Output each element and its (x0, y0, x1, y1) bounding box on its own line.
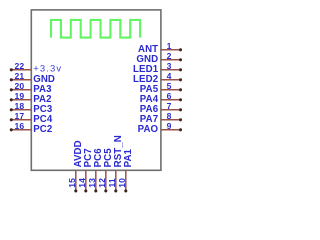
pin 13 (PC6) (87, 148, 104, 193)
pin 21 (GND) (10, 71, 55, 85)
pin 20 (PA3) (10, 81, 52, 95)
svg-text:2: 2 (167, 51, 172, 61)
pin 2 (GND) (136, 51, 182, 65)
pin 3 wire (161, 69, 181, 71)
svg-text:PA1: PA1 (123, 148, 134, 167)
pin 19 (PA2) (10, 91, 52, 105)
pin 19 end dot (10, 98, 13, 101)
svg-text:11: 11 (107, 178, 117, 187)
pin 15 (AVDD) (67, 140, 84, 192)
pin 6 (PA4) (140, 91, 182, 105)
svg-text:16: 16 (15, 121, 25, 131)
pin 7 end dot (179, 108, 182, 111)
pin 17 wire (11, 119, 31, 121)
pin 4 wire (161, 79, 181, 81)
pin 2 wire (161, 59, 181, 61)
pin 15 end dot (74, 189, 77, 192)
pin 14 wire (85, 170, 87, 191)
svg-text:4: 4 (167, 71, 172, 81)
pin 22 end dot (10, 68, 13, 71)
pin 11 end dot (114, 189, 117, 192)
pin 15 wire (75, 170, 77, 191)
pin 9 end dot (179, 128, 182, 131)
pin 3 (LED1) (133, 61, 182, 75)
pin 17 (PC4) (10, 111, 53, 125)
svg-text:21: 21 (15, 71, 25, 81)
pin 3 end dot (179, 68, 182, 71)
pin 11 wire (115, 170, 117, 191)
pin 9 (PAO) (138, 121, 182, 135)
antenna waveform (51, 20, 140, 38)
svg-text:14: 14 (77, 178, 87, 188)
svg-text:13: 13 (87, 178, 97, 188)
svg-text:1: 1 (167, 41, 172, 51)
pin 8 end dot (179, 118, 182, 121)
pin 10 wire (125, 170, 127, 191)
pin 7 (PA6) (140, 101, 182, 115)
pin 4 end dot (179, 78, 182, 81)
svg-text:17: 17 (15, 111, 25, 121)
pin 20 end dot (10, 88, 13, 91)
svg-text:9: 9 (167, 121, 172, 131)
pin 10 end dot (124, 189, 127, 192)
pin 21 end dot (10, 78, 13, 81)
pin 2 end dot (179, 58, 182, 61)
svg-text:PC2: PC2 (33, 124, 52, 135)
pin 4 (LED2) (133, 71, 182, 85)
svg-text:22: 22 (15, 61, 25, 71)
svg-text:7: 7 (167, 101, 172, 111)
pin 7 wire (161, 109, 181, 111)
svg-text:15: 15 (67, 178, 77, 188)
pin 12 wire (105, 170, 107, 191)
pin 9 wire (161, 129, 181, 131)
pin 18 end dot (10, 108, 13, 111)
pin 1 wire (161, 49, 181, 51)
svg-text:PAO: PAO (138, 124, 159, 135)
pin 5 (PA5) (140, 81, 182, 95)
pin 22 (+3.3v) (10, 61, 62, 75)
pin 17 end dot (10, 118, 13, 121)
pin 1 (ANT) (138, 41, 182, 55)
svg-text:+3.3v: +3.3v (33, 63, 62, 74)
pin 11 (RST_N) (107, 135, 124, 192)
pin 13 end dot (94, 189, 97, 192)
pin 18 (PC3) (10, 101, 53, 115)
svg-text:8: 8 (167, 111, 172, 121)
pin 21 wire (11, 79, 31, 81)
svg-text:18: 18 (15, 101, 25, 111)
pin 19 wire (11, 99, 31, 101)
pin 5 end dot (179, 88, 182, 91)
pin 5 wire (161, 89, 181, 91)
module body (31, 10, 161, 170)
pin 16 wire (11, 129, 31, 131)
pin 16 end dot (10, 128, 13, 131)
pin 6 wire (161, 99, 181, 101)
svg-text:10: 10 (117, 178, 127, 188)
svg-text:12: 12 (97, 178, 107, 188)
pin 10 (PA1) (117, 148, 134, 192)
pin 16 (PC2) (10, 121, 53, 135)
pin 8 (PA7) (140, 111, 182, 125)
svg-text:19: 19 (15, 91, 25, 101)
pin 14 end dot (84, 189, 87, 192)
pin 8 wire (161, 119, 181, 121)
pin 14 (PC7) (77, 148, 94, 192)
pin 13 wire (95, 170, 97, 191)
pin 22 wire (11, 69, 31, 71)
pin 6 end dot (179, 98, 182, 101)
pin 12 (PC5) (97, 148, 114, 193)
pin 12 end dot (104, 189, 107, 192)
pin 20 wire (11, 89, 31, 91)
svg-text:5: 5 (167, 81, 172, 91)
svg-text:3: 3 (167, 61, 172, 71)
svg-text:20: 20 (15, 81, 25, 91)
pin 18 wire (11, 109, 31, 111)
pin 1 end dot (179, 48, 182, 51)
svg-text:6: 6 (167, 91, 172, 101)
